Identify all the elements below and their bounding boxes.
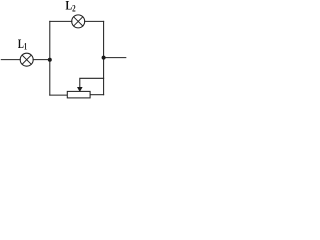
svg-text:L2: L2 <box>66 0 76 15</box>
svg-text:L1: L1 <box>18 36 27 53</box>
